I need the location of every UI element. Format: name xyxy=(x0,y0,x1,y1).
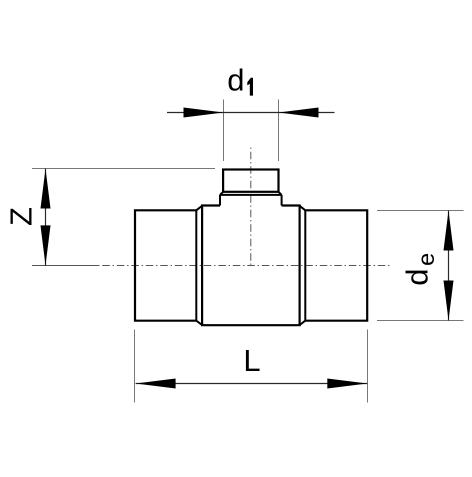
de top arrow xyxy=(444,211,454,251)
top socket left flare xyxy=(220,192,223,195)
svg-text:d: d xyxy=(227,62,244,97)
L right extension line xyxy=(367,330,369,403)
de bottom extension line xyxy=(377,320,464,322)
d1 left extension line xyxy=(223,100,225,162)
L left extension line xyxy=(134,330,136,403)
L dimension line xyxy=(136,383,368,385)
Z bottom arrow xyxy=(41,225,51,265)
d1 left arrow xyxy=(184,108,224,118)
vertical branch centerline xyxy=(250,148,252,266)
right socket bottom taper xyxy=(300,321,306,325)
top socket right flare xyxy=(279,192,282,195)
horizontal run centerline solid lead segment xyxy=(32,265,100,267)
svg-text:e: e xyxy=(413,253,439,266)
Z dimension line xyxy=(45,169,47,266)
left socket junction edge line xyxy=(195,210,197,320)
d1 right extension line xyxy=(278,100,280,162)
svg-text:L: L xyxy=(243,343,260,378)
L left arrow xyxy=(136,379,176,389)
d1 right arrow xyxy=(279,108,319,118)
d1 dimension line xyxy=(167,112,335,114)
right socket junction edge line xyxy=(304,210,306,320)
label d1 subscript 1 xyxy=(247,78,253,96)
Z top arrow xyxy=(41,169,51,209)
svg-text:Z: Z xyxy=(4,207,39,226)
collar right side xyxy=(281,195,283,206)
de dimension line xyxy=(448,211,450,321)
right socket outline xyxy=(305,210,367,320)
top socket junction edge line xyxy=(220,194,282,196)
L right arrow xyxy=(327,379,367,389)
Z top extension line xyxy=(32,168,215,170)
svg-text:d: d xyxy=(400,269,435,286)
de top extension line xyxy=(377,210,464,212)
horizontal run centerline xyxy=(102,265,391,267)
left socket bottom taper xyxy=(196,321,202,325)
left socket top taper xyxy=(196,206,202,211)
de bottom arrow xyxy=(444,281,454,321)
right socket top taper xyxy=(300,206,306,211)
top branch socket xyxy=(223,170,278,192)
tee body (center section) xyxy=(202,206,300,326)
collar left side xyxy=(219,195,221,206)
left socket outline xyxy=(135,210,196,320)
